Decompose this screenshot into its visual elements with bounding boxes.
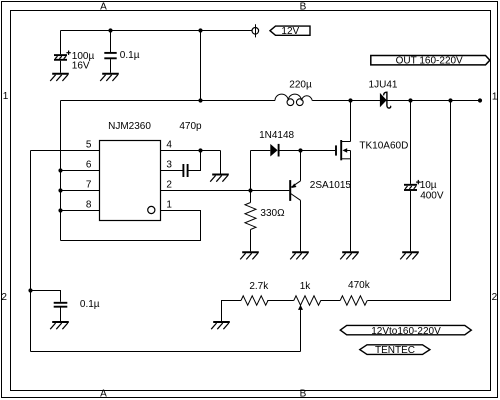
svg-text:470k: 470k xyxy=(348,280,371,291)
wire R2 left to ground xyxy=(222,301,242,322)
wire D1 anode left xyxy=(251,150,271,152)
svg-text:12Vto160-220V: 12Vto160-220V xyxy=(371,326,441,337)
inductor L1 220u xyxy=(275,94,312,105)
node junction (61,210) xyxy=(58,208,62,212)
net flag TENTEC xyxy=(360,345,430,356)
wire C4 bottom lead xyxy=(410,191,412,252)
svg-text:1k: 1k xyxy=(300,281,312,292)
svg-text:TK10A60D: TK10A60D xyxy=(359,141,408,152)
svg-text:NJM2360: NJM2360 xyxy=(108,121,151,132)
wire C5 to ground xyxy=(60,308,62,322)
node junction (200,30) xyxy=(198,28,202,32)
IC U1 NJM2360 body xyxy=(100,141,161,221)
ground for R1 xyxy=(240,252,259,259)
wire feedback riser x450 xyxy=(367,101,450,301)
svg-text:1JU41: 1JU41 xyxy=(369,80,398,91)
svg-text:2: 2 xyxy=(492,292,498,303)
potentiometer R3 1k xyxy=(294,296,321,310)
resistor R2 2.7k xyxy=(241,296,268,305)
node junction (300.4,150) xyxy=(298,148,302,152)
svg-text:6: 6 xyxy=(86,160,92,171)
ground for C5 xyxy=(50,322,69,329)
resistor R1 330ohm xyxy=(245,203,256,230)
svg-text:A: A xyxy=(100,388,107,399)
ground for R2 xyxy=(211,322,230,329)
svg-text:5: 5 xyxy=(86,140,92,151)
wire R1 to ground xyxy=(250,230,252,252)
wire 100u bottom lead xyxy=(60,61,62,73)
ground for Q1 xyxy=(290,252,309,259)
wire rail after inductor xyxy=(312,100,480,102)
svg-text:2: 2 xyxy=(166,180,172,191)
connector J1 12V input xyxy=(252,24,259,37)
wire C3 to pin4 node xyxy=(188,151,200,171)
pin 2 stub wire to Q2 base xyxy=(161,190,290,192)
wire x30 left vertical xyxy=(30,151,32,352)
svg-text:8: 8 xyxy=(86,200,92,211)
wire 100u top lead xyxy=(60,31,62,55)
wire 0.1u bottom lead xyxy=(110,59,112,73)
capacitor C4 10u 400V electrolytic xyxy=(404,180,421,190)
wire vertical x200 xyxy=(200,31,202,101)
net flag 12Vto160-220V xyxy=(340,325,471,336)
svg-text:3: 3 xyxy=(166,160,172,171)
net flag 12V xyxy=(270,26,310,37)
node junction (410.6,100) xyxy=(408,98,412,102)
node junction (61,190) xyxy=(58,188,62,192)
svg-text:7: 7 xyxy=(86,180,92,191)
wire left bus x61 xyxy=(60,101,62,241)
diode D1 1N4148 xyxy=(270,144,278,157)
pin 4 stub and wire to ground xyxy=(161,151,221,174)
wire bottom run xyxy=(31,351,301,353)
capacitor C1 100u 16V electrolytic xyxy=(54,51,71,60)
svg-text:1: 1 xyxy=(492,91,498,102)
svg-text:A: A xyxy=(100,1,107,12)
svg-text:B: B xyxy=(300,1,307,12)
node output end (480,100) xyxy=(478,98,482,102)
wire 0.1u top lead xyxy=(110,31,112,53)
transistor Q2 TK10A60D mosfet xyxy=(336,140,351,160)
svg-text:B: B xyxy=(300,388,307,399)
node junction (110,30) xyxy=(108,28,112,32)
svg-text:16V: 16V xyxy=(72,61,90,72)
svg-text:1: 1 xyxy=(3,91,9,102)
wire Q1 collector down xyxy=(300,200,302,251)
ground for C1 xyxy=(50,74,69,81)
svg-text:2: 2 xyxy=(1,292,7,303)
node junction (350.7,100) xyxy=(348,98,352,102)
wire 2.7k to pot xyxy=(267,300,294,302)
capacitor C5 0.1u bottom xyxy=(54,303,68,307)
wire D1 cathode to gate xyxy=(279,150,335,152)
net flag OUT 160-220V xyxy=(371,56,490,67)
node junction (250,190) xyxy=(248,188,252,192)
node junction (200.3,150) xyxy=(198,148,202,152)
ground for Q2 source xyxy=(340,252,359,259)
svg-text:220µ: 220µ xyxy=(289,79,312,90)
wire Q2 drain xyxy=(350,101,352,142)
svg-text:330Ω: 330Ω xyxy=(260,208,285,219)
svg-text:1: 1 xyxy=(166,200,172,211)
svg-text:470p: 470p xyxy=(179,121,202,132)
node junction (450,100) xyxy=(448,98,452,102)
resistor R4 470k xyxy=(340,296,367,305)
transistor Q1 2SA1015 xyxy=(290,180,300,201)
diode D2 1JU41 xyxy=(380,92,391,108)
svg-text:12V: 12V xyxy=(281,26,299,37)
pin 3 stub xyxy=(161,170,183,172)
svg-text:0.1µ: 0.1µ xyxy=(120,50,140,61)
wire main rail y100 xyxy=(61,100,276,102)
wire wiper riser xyxy=(300,309,302,351)
node junction (30.5,290.3) xyxy=(28,288,32,292)
wire x250 vertical xyxy=(250,151,252,203)
ground for C2 xyxy=(100,74,119,81)
pin 8 stub xyxy=(61,210,100,212)
wire Q1 emitter up xyxy=(300,151,302,181)
svg-text:1N4148: 1N4148 xyxy=(259,130,294,141)
wire Q2 source to ground xyxy=(350,151,352,252)
ground for pin4 net xyxy=(210,175,229,182)
pin 5 stub xyxy=(31,150,100,152)
wire top rail 12V xyxy=(61,30,253,32)
capacitor C2 0.1u top xyxy=(104,53,116,58)
svg-text:4: 4 xyxy=(166,140,172,151)
svg-text:400V: 400V xyxy=(420,191,444,202)
wire pot to 470k xyxy=(321,300,341,302)
svg-text:2SA1015: 2SA1015 xyxy=(310,180,352,191)
svg-text:TENTEC: TENTEC xyxy=(375,345,415,356)
wire to C5 0.1u xyxy=(31,291,61,302)
capacitor C3 470p xyxy=(183,164,187,177)
svg-text:2.7k: 2.7k xyxy=(249,281,269,292)
svg-text:10µ: 10µ xyxy=(420,180,437,191)
svg-text:OUT 160-220V: OUT 160-220V xyxy=(396,56,463,67)
svg-text:0.1µ: 0.1µ xyxy=(80,299,100,310)
pin 7 stub xyxy=(61,190,100,192)
ground for C4 xyxy=(400,252,419,259)
pin 6 stub xyxy=(61,170,100,172)
IC U1 indicator circle xyxy=(148,206,155,213)
node junction (61,170) xyxy=(58,168,62,172)
node junction (200,100) xyxy=(198,98,202,102)
wire pin1 loop xyxy=(61,211,201,241)
wire C4 top lead xyxy=(410,101,412,184)
